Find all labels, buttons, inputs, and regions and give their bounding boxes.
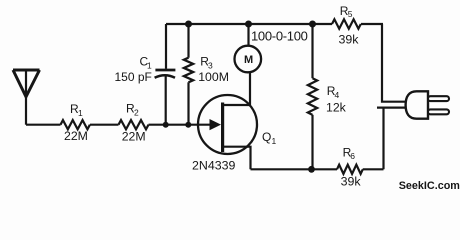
svg-text:6: 6 (350, 151, 355, 161)
svg-text:39k: 39k (339, 33, 360, 47)
svg-text:4: 4 (335, 90, 340, 100)
svg-text:1: 1 (78, 108, 83, 118)
svg-text:1: 1 (272, 136, 277, 146)
svg-text:39k: 39k (341, 175, 362, 189)
svg-text:22M: 22M (122, 129, 146, 143)
svg-text:M: M (244, 54, 253, 66)
svg-text:100M: 100M (198, 70, 229, 84)
svg-text:2N4339: 2N4339 (192, 158, 236, 172)
svg-text:150 pF: 150 pF (115, 70, 152, 84)
svg-text:1: 1 (147, 61, 152, 71)
svg-text:12k: 12k (326, 100, 347, 114)
svg-text:100-0-100: 100-0-100 (251, 28, 308, 43)
svg-text:5: 5 (348, 9, 353, 19)
svg-text:22M: 22M (64, 129, 88, 143)
svg-text:2: 2 (134, 108, 139, 118)
svg-text:SeekIC.com: SeekIC.com (399, 180, 460, 192)
svg-text:Q: Q (262, 130, 271, 144)
svg-text:3: 3 (208, 61, 213, 71)
